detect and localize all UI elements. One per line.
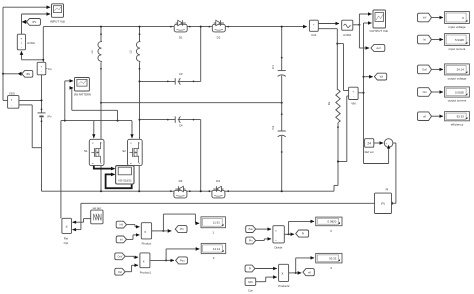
svg-text:OuI: OuI [118,271,122,274]
svg-text:IPV: IPV [32,21,36,24]
wire Cu1 out2 [318,29,338,90]
wire con to product2 [256,277,277,282]
goto tag IPA [2,70,33,77]
wire product2 out [289,272,302,274]
svg-text:m: m [92,163,94,165]
wire PI out long [72,203,375,231]
svg-text:OuV: OuV [422,69,427,72]
wire scope pattern in1 [65,81,73,121]
from tag InI with display input current [418,34,470,52]
svg-text:-: - [353,95,354,98]
svg-text:IPv: IPv [48,114,53,118]
bold wire S2 m to scope [106,166,132,189]
divide block [273,226,284,250]
capacitor C4 [139,116,201,127]
wire rms out to scope [353,14,372,26]
wire Cu1 out1 [318,23,339,25]
wire left return bus [2,7,4,100]
wire Vol riser [363,23,372,164]
diode D3 [170,179,191,198]
svg-text:24.14: 24.14 [457,68,465,72]
svg-text:efficiency: efficiency [451,122,464,126]
svg-text:OuI: OuI [423,91,427,94]
svg-text:IPA: IPA [26,73,30,76]
svg-text:output voltage: output voltage [448,77,467,81]
wire tagB2 to product1 [125,265,138,271]
from tag InV with display input voltage [418,12,470,30]
svg-text:PI: PI [386,188,389,192]
wire divide out [284,233,294,235]
from tag InI A [116,236,126,243]
from tag OuV with display output voltage [418,64,470,81]
wire VM plus [337,44,348,91]
wire PV column [41,75,43,191]
svg-text:D4: D4 [216,179,220,183]
goto tag Pin A [175,226,187,233]
ammeter A=I0A [17,34,35,50]
svg-text:93.33: 93.33 [329,256,337,260]
wire tagC2 to divide [256,239,271,241]
wire VM minus [337,96,349,163]
svg-text:-: - [21,46,22,50]
wire tagC1 to divide [256,228,271,230]
svg-text:VSG: VSG [9,91,16,95]
wire sum to PI [388,143,396,205]
svg-text:Pou: Pou [249,228,254,231]
wire product2 to display4 [296,258,314,273]
wire ref to sum [374,142,383,144]
wire to INPUT scope in1 [3,6,50,8]
svg-text:S1: S1 [84,149,88,153]
svg-text:≤: ≤ [66,224,68,228]
svg-text:OUTPUT V&I: OUTPUT V&I [370,29,389,33]
relational operator Rel Opr [62,218,72,245]
wire divide to display3 [289,221,315,234]
svg-text:Pou: Pou [180,260,185,263]
goto tag IPV [22,19,41,26]
svg-text:Cu: Cu [48,67,52,71]
block A=RIA rms [342,20,353,37]
svg-text:-: - [313,28,314,31]
wire VSG out1 [19,99,43,101]
goto tag Vol [374,73,386,80]
wire Cu top riser [42,27,44,63]
svg-text:Vol: Vol [380,76,384,79]
voltage meas VM [349,87,359,105]
goto tag Pi C [296,230,309,237]
wire tagA1 to product [127,225,140,227]
mid rail node A [100,102,283,104]
inductor L2 [129,26,141,139]
wire product1 out [150,259,174,261]
product block Product [141,223,151,246]
product block Product1 [140,253,152,275]
wire tagD1 to product2 [255,268,277,270]
transistor S2 [122,139,142,192]
svg-text:S2: S2 [122,149,126,153]
block PI controller [375,188,392,214]
from tag OutI B [115,268,125,275]
svg-text:output current: output current [448,99,467,103]
product block Product2 [278,264,290,288]
svg-text:D2: D2 [217,35,221,39]
display 4 [316,253,342,269]
scope OUTPUT V&amp;I [370,10,389,33]
svg-text:InI: InI [120,239,123,242]
svg-text:SW PATTERN: SW PATTERN [74,92,91,96]
current source block Cu [37,62,52,75]
svg-text:0.9820: 0.9820 [328,220,337,224]
wire to INPUT scope in2 [22,14,51,34]
wire output cap column [281,26,283,193]
svg-text:C4: C4 [179,124,183,128]
svg-text:OuV: OuV [118,255,123,258]
svg-text:D3: D3 [179,179,183,183]
display 3 [316,217,342,233]
svg-text:sw per: sw per [93,206,101,210]
svg-text:C3: C3 [179,72,183,76]
wire ammeter bottom [22,51,44,60]
from tag Pin C [246,237,256,244]
svg-text:Product1: Product1 [140,270,152,274]
svg-text:5.9428: 5.9428 [455,38,464,42]
svg-text:3: 3 [330,229,332,233]
goto tag eff D [303,269,314,276]
wire Vol to tag [364,76,373,78]
svg-text:Divide: Divide [275,245,283,249]
svg-text:m: m [130,163,132,165]
wire C4 to D3-D4 node [200,120,202,193]
from tag OutV B [115,253,125,260]
gate wire S1 [92,121,95,139]
sum junction [384,139,393,149]
wire sw per to relop [72,219,91,224]
transistor S1 [84,139,104,192]
top rail [43,26,307,28]
svg-text:RL: RL [327,101,331,105]
scope VSI S1&amp;S2 [116,166,134,184]
svg-text:eff: eff [423,115,426,118]
dc source PV [38,113,53,118]
wire scope pattern in2 [72,88,118,121]
svg-text:Product: Product [142,242,152,246]
resistor RL [327,90,340,186]
svg-text:InV: InV [423,17,427,20]
wire product to display1 [163,214,199,231]
svg-text:VM: VM [351,102,356,106]
svg-text:+: + [21,37,23,41]
wire product out [152,230,172,232]
svg-text:PI: PI [381,202,384,206]
diode D1 [170,20,191,39]
svg-text:Product2: Product2 [278,284,290,288]
svg-text:4: 4 [330,266,332,270]
diode D4 [208,179,229,198]
svg-text:12.14: 12.14 [213,247,221,251]
svg-text:24: 24 [367,141,371,145]
svg-text:Rel: Rel [64,236,69,240]
svg-text:eff: eff [308,271,311,274]
from tag InV A [116,221,126,228]
svg-text:-: - [41,70,42,74]
goto tag out I [371,45,385,52]
wire C3 to D1-D2 node [200,26,202,82]
wire VM out [358,92,363,94]
wire tagB1 to product1 [125,255,138,258]
display 1 [201,217,226,235]
svg-text:input voltage: input voltage [448,25,465,29]
svg-text:C1: C1 [271,65,275,69]
scope INPUT V&amp;I [50,4,65,24]
block VSG [3,91,19,108]
gate wire S2 [130,121,133,139]
svg-text:input current: input current [449,47,466,51]
svg-text:InV: InV [120,224,124,227]
wire VSG out2 [19,105,42,148]
capacitor C1 [271,65,286,77]
svg-text:100: 100 [248,280,253,284]
svg-text:A=I0A: A=I0A [27,41,35,45]
svg-text:InI: InI [423,39,426,42]
constant 24 Ref vol [365,139,374,155]
svg-text:Con: Con [248,288,254,292]
wire rms out to tag [359,25,369,48]
svg-text:1: 1 [212,231,214,235]
current meas Cu1 [309,20,318,37]
goto tag Pou B [176,257,188,264]
from tag eff with display efficiency [418,112,470,127]
constant 100 Con [245,278,256,292]
wire tagA2 to product [127,235,140,240]
svg-text:D1: D1 [179,35,183,39]
svg-text:93.33: 93.33 [457,114,465,118]
display 2 [201,243,226,260]
wire product1 to display2 [166,249,199,261]
bottom rail [42,185,339,191]
svg-text:0.5028: 0.5028 [455,90,464,94]
capacitor C2 [271,125,286,136]
svg-text:A=RIA: A=RIA [343,33,351,37]
scope SW PATTERN [74,78,91,97]
inductor L1 [90,26,102,139]
bold wire S1 m to scope [94,166,116,171]
block sw per [91,206,103,224]
svg-text:out I: out I [376,47,381,50]
from tag Pi D [245,265,255,272]
svg-text:C2: C2 [271,125,275,129]
from tag Pou C [246,226,256,233]
gate bus wire [61,120,132,219]
wire feedback [364,145,391,164]
diode D2 [208,20,229,39]
capacitor C3 [139,72,201,85]
svg-text:L2: L2 [129,50,133,54]
svg-text:VSI S1&S2: VSI S1&S2 [118,178,132,182]
svg-text:Opr: Opr [64,241,69,245]
svg-text:Cu1: Cu1 [311,33,317,37]
svg-text:2: 2 [213,256,215,260]
svg-text:Ref vol: Ref vol [365,150,374,154]
from tag OuI with display output current [418,87,470,103]
svg-text:INPUT V&I: INPUT V&I [50,19,65,23]
svg-text:11.91: 11.91 [213,221,220,225]
svg-text:L1: L1 [90,50,94,54]
